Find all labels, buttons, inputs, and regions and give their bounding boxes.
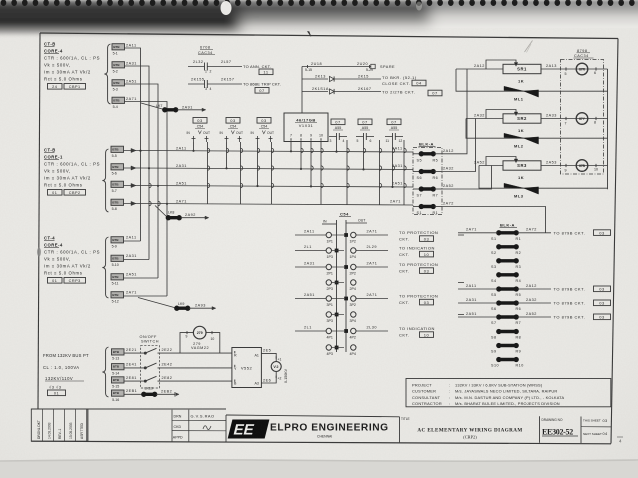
wire 2L32: [188, 66, 205, 68]
wire 2A31 to bus: [124, 259, 150, 261]
meter shunt ML3: [504, 183, 524, 188]
ckt box 11: [259, 69, 273, 75]
dropper C54-3 out: [271, 142, 273, 204]
brace CT-B CORE-1: [102, 149, 108, 212]
isolating link S3-R3: [498, 259, 518, 262]
wire 2A11 to 1P1: [295, 234, 326, 236]
wire 2K167 to 2/27B: [335, 91, 382, 93]
wire 2A51 to 3P1: [295, 298, 326, 300]
smudge on left border: [37, 248, 41, 257]
bus segment 2A51: [157, 186, 159, 279]
wire 2A71 - 2A72 to 879B ckt: [458, 232, 498, 234]
wire 2A11 to bus: [124, 240, 141, 242]
wire 2E21: [124, 352, 145, 354]
isolating link S9-R9: [498, 344, 518, 347]
voltmeter V2: [271, 362, 281, 372]
wire 2A71 from 5-4: [125, 102, 168, 204]
wire 2A52 to SR3: [479, 165, 503, 167]
ckt box 04: [412, 80, 426, 86]
fuse monitor relay 279 VAGM22: [193, 326, 206, 339]
terminal BTB 5-2: [112, 62, 125, 68]
bus segment 2A11: [140, 151, 142, 242]
shunt ML1 bypass wire: [456, 69, 608, 91]
ELPRO logo: [226, 415, 400, 417]
isolating link S1-R1: [498, 231, 518, 234]
phase rail 2A11: [140, 151, 413, 153]
wire 2A32 riser to SR2: [442, 119, 476, 172]
relay coil 87B: [576, 160, 588, 172]
wire 2A91 with arrow: [177, 109, 202, 111]
wire 2A71 outgoing: [356, 298, 388, 300]
dropper A55-2 pin5: [363, 140, 365, 169]
fuse link S6-R6: [413, 171, 420, 173]
wire 279 right leg: [206, 333, 220, 354]
terminal BTB 5-12: [111, 292, 124, 298]
wire 2A71 outgoing: [356, 266, 388, 268]
wire 2K155: [188, 83, 205, 85]
capacitor module A55 #1 ckt 07: [331, 119, 345, 125]
voltage selector V552: [232, 348, 262, 388]
meter module C54 #2 ckt 03: [226, 118, 240, 124]
wire 2U18 spare row: [302, 66, 371, 68]
wiper arrow of SR1: [486, 60, 516, 69]
wire 2A52 riser to SR3: [442, 166, 492, 190]
sheet cell: [580, 417, 582, 444]
isolating link S4-R4: [498, 273, 518, 276]
fuse link S1-R1: [413, 206, 420, 208]
terminal pair 4P1/4P2: [326, 328, 331, 333]
wire 2A51 - 2A52 to 879B ckt: [458, 316, 498, 318]
wire 2A93 with arrow: [189, 307, 212, 309]
terminal BTB 5-7 with arrow: [111, 181, 124, 187]
wire 2A33: [541, 118, 561, 120]
title strip line: [31, 408, 226, 410]
meter module C54 #3 ckt 03: [257, 118, 271, 124]
terminal BTB 5-6 with arrow: [111, 164, 124, 170]
phase rail 2A71: [140, 204, 413, 206]
wiper arrow of SR3: [486, 157, 516, 166]
wire 2E6: [261, 372, 276, 383]
dropper V1X31 pin7: [290, 142, 292, 152]
wire 2A53: [541, 165, 561, 167]
title cell: [399, 417, 401, 443]
bus segment 2A71: [166, 204, 168, 297]
continuation dashes right of C54 rows: [458, 234, 464, 236]
wire tap to LK9: [138, 298, 176, 309]
wire 2L30 outgoing: [356, 330, 388, 332]
ckt box 07 trip: [255, 88, 269, 94]
terminal BTB 5-1: [112, 44, 125, 50]
isolating link S7-R7: [498, 315, 518, 318]
brace CT-B CORE-4: [104, 44, 110, 104]
resistor SR2 1K: [503, 114, 541, 123]
isolating link S6-R6: [498, 301, 518, 304]
dropper A55-1 pin4: [346, 140, 348, 205]
isolating link S5-R5: [498, 287, 518, 290]
wire through relay 87B: [561, 165, 608, 167]
terminal BTB 5-4: [112, 97, 125, 103]
wire 2L29 outgoing: [356, 250, 388, 252]
relay coil 87R: [576, 63, 588, 75]
capacitor module A55 #2 ckt 07: [358, 119, 372, 125]
switch S1 dashed enclosure: [141, 346, 160, 388]
right collector bus: [607, 69, 609, 189]
terminal BTB 5-9: [111, 237, 124, 243]
wire 2E41: [124, 367, 145, 369]
wire 2K157 to 86BE trip: [207, 83, 242, 85]
tick arrow on top border: [308, 32, 312, 37]
terminal BTB 5-13: [112, 349, 125, 355]
terminal pair 2P1/2P2: [326, 264, 331, 269]
wiper arrow of SR2: [486, 110, 516, 119]
wire 2A92 with arrow: [181, 217, 206, 219]
switch pole 2E42: [144, 367, 146, 369]
wire 2A13: [541, 68, 561, 70]
wire 2L57 to ann ckt: [207, 66, 242, 68]
wire 2A51 to bus: [124, 277, 159, 279]
isolating link S10-R10: [498, 358, 518, 361]
wire 2K13 row: [302, 78, 328, 80]
meter module C54 #1 ckt 03: [193, 118, 207, 124]
wire 2EB2: [156, 393, 175, 395]
wire 2EB1: [124, 393, 143, 395]
drawing sheet border frame: [40, 33, 618, 39]
wire 2A71 outgoing: [356, 234, 388, 236]
binding holes: [1, 0, 635, 6]
switch pole 2E22: [144, 352, 146, 354]
terminal BTB 5-15: [112, 377, 125, 383]
terminal BTB 5-5 with arrow: [111, 146, 124, 152]
junction dots on rails: [139, 150, 393, 205]
bus segment 2A31: [148, 168, 150, 260]
terminal pair 1P1/1P2: [326, 232, 331, 237]
wire 2A12 to SR1: [456, 68, 503, 70]
wire 2A31 to 2P1: [295, 266, 326, 268]
wire 2A11 - 2A12 to 879B ckt: [458, 288, 498, 290]
dropper C54-1 out: [207, 142, 209, 204]
switch pole 2E82: [144, 380, 146, 382]
wire through relay 87Y: [561, 118, 608, 120]
wire 2L1 to 1P3: [295, 250, 326, 252]
dropper V1X31 pin8: [300, 142, 302, 169]
isolating link S2-R2: [498, 245, 518, 248]
dropper A55-3 pin12: [403, 140, 405, 205]
dropper C54-3 in: [257, 142, 259, 186]
OUT bus: [345, 220, 347, 352]
wire tap to LK8: [155, 206, 168, 218]
fuse link S7-R7: [413, 188, 420, 190]
shunt ML2 bypass wire: [466, 119, 608, 139]
wire through relay 87R: [561, 68, 608, 70]
meter shunt ML2: [504, 133, 524, 138]
wire 2E81: [124, 380, 145, 382]
bus into V1X31 top: [301, 67, 303, 114]
wire 2A51 from 5-3: [125, 84, 159, 186]
wire 2K15 to breaker close: [335, 78, 382, 80]
wire 2A72 down to 879B row: [442, 207, 546, 233]
shunt ML3 bypass wire: [479, 166, 608, 189]
dropper C54-2 in: [226, 142, 228, 168]
ckt box 07 right: [428, 90, 442, 96]
drawing number cell: [539, 416, 541, 443]
wire 2A12 riser to SR1: [442, 69, 467, 154]
meter shunt ML1: [504, 86, 524, 91]
wire 2K1S1A row: [302, 91, 328, 93]
resistor SR3 1K: [503, 161, 541, 170]
dropper A55-2 pin6: [379, 140, 381, 205]
capacitor 2L32/2L57 pins 1-2: [204, 63, 206, 71]
dropper A55-3 pin11: [392, 140, 394, 187]
wire 2A32 to SR2: [466, 118, 503, 120]
capacitor 2K155/2K157 pins 3-4: [204, 80, 206, 88]
top dark binding band: [0, 0, 638, 36]
terminal pair 3P1/3P2: [326, 296, 331, 301]
project info box: [406, 379, 611, 407]
terminal BTB 5-11: [111, 274, 124, 280]
terminal pair 1P3/1P4: [326, 248, 331, 253]
phase rail 2A31: [140, 168, 413, 170]
transducer U1 46/17GB V1X31: [284, 113, 328, 142]
wire 2A71 to bus: [124, 295, 168, 297]
brace CT-4: [102, 237, 108, 298]
dropper C54-1 in: [193, 142, 195, 151]
terminal BTB 5-10: [111, 255, 124, 261]
wire 2E5: [261, 353, 276, 361]
terminal BTB 5-3: [112, 80, 125, 86]
capacitor module A55 #3 ckt 07: [387, 119, 401, 125]
diode 2K13: [330, 76, 335, 81]
terminal BTB 5-8 with arrow: [111, 199, 124, 205]
wire hops at rail crossings: [149, 148, 406, 205]
bottom scanner band: [0, 461, 638, 478]
fuse link S5-R5: [413, 153, 420, 155]
wire 279 left leg: [180, 333, 193, 354]
terminal pair 2P3/2P4: [326, 280, 331, 285]
IN bus: [336, 220, 338, 352]
wire 2A31 from 5-2: [125, 66, 150, 168]
resistor SR1 1K: [503, 64, 541, 73]
drawn-checked cells: [171, 410, 173, 442]
dropper V1X31 pin9: [310, 142, 312, 187]
wire 2A11 from 5-1: [125, 48, 141, 151]
terminal pair 3P3/3P4: [326, 312, 331, 317]
terminal pair 4P3/4P4: [326, 345, 331, 350]
dropper A55-1 pin3: [336, 140, 338, 152]
pencil mark above SR1: [525, 41, 533, 53]
wire 2L1 to 4P1: [295, 330, 326, 332]
isolating link S8-R8: [498, 330, 518, 333]
revision table: [31, 409, 88, 441]
wire tap to LK7: [141, 103, 164, 110]
terminal BTB 5-16: [112, 390, 125, 396]
wire 2A31 - 2A32 to 879B ckt: [458, 302, 498, 304]
terminal BTB 5-14: [112, 364, 125, 370]
dropper V1X31 pin10: [320, 142, 322, 205]
relay coil 87Y: [576, 113, 588, 125]
phase rail 2A51: [140, 186, 413, 188]
dropper C54-2 out: [240, 142, 242, 204]
brace PT: [102, 347, 108, 397]
diode 2K1S1A: [330, 89, 335, 94]
